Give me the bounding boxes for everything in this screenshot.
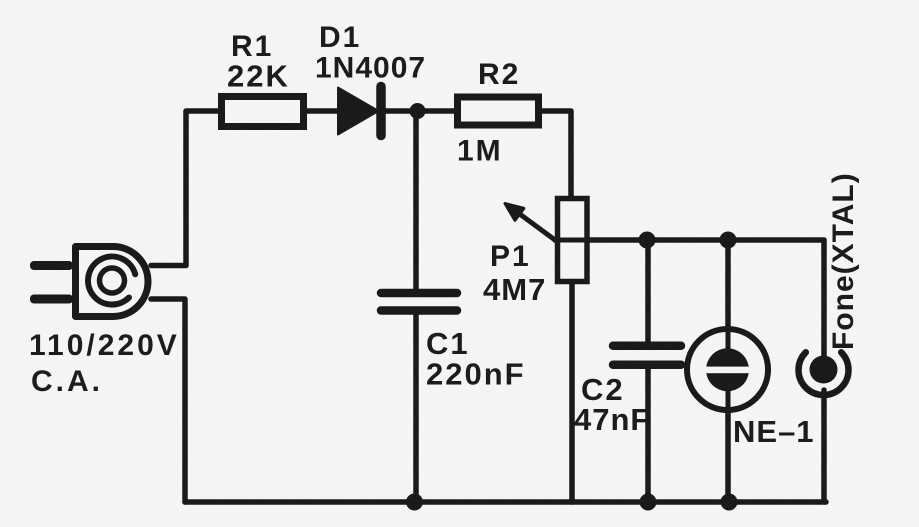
- paper grain overlay: [0, 0, 1, 1]
- wire R2 to P1 top: [538, 111, 571, 198]
- wire NE-1 vertical: [725, 240, 731, 502]
- node dot top rail / NE-1: [720, 232, 737, 249]
- diode D1: [338, 87, 381, 136]
- wire P1 bottom to bottom rail: [569, 282, 575, 502]
- wire C2 upper lead: [645, 240, 651, 344]
- wire D1 to R2: [384, 108, 456, 114]
- earphone fone XTAL: [799, 352, 849, 395]
- capacitor C1: [381, 293, 457, 311]
- node dot bottom rail / C2: [640, 494, 657, 511]
- resistor R1: [222, 97, 304, 127]
- node dot bottom rail / C1: [406, 494, 423, 511]
- wire phone lower lead: [821, 390, 827, 502]
- wire C1 lower lead: [413, 313, 419, 502]
- capacitor C2: [613, 346, 681, 365]
- node junction diode/C1/R2: [410, 103, 426, 119]
- node dot top rail / C2: [639, 232, 656, 249]
- wire bottom rail: [185, 499, 826, 505]
- wire plug lower lead to bottom rail: [151, 299, 185, 502]
- wire C1 upper lead: [413, 111, 419, 291]
- node dot bottom rail / NE-1: [721, 494, 738, 511]
- wire plug upper lead to R1: [151, 111, 222, 266]
- potentiometer P1: [505, 199, 588, 282]
- wire C2 lower lead: [645, 367, 651, 502]
- wire phone upper lead: [821, 240, 827, 362]
- neon lamp NE-1: [687, 329, 768, 410]
- resistor R2: [458, 97, 539, 125]
- wire R1 to D1: [303, 108, 341, 114]
- AC plug: [30, 247, 148, 317]
- wire top rail P1 wiper to phone: [555, 237, 824, 243]
